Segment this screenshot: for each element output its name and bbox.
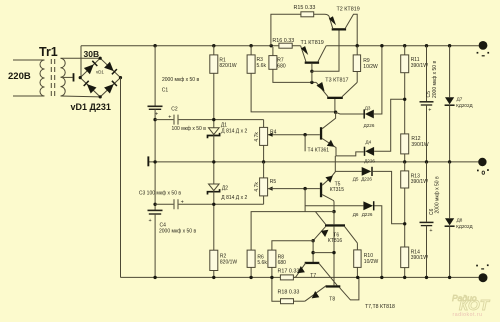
- svg-text:Д 814 Д x 2: Д 814 Д x 2: [221, 195, 247, 201]
- wire R4 top lead to reference node: [263, 120, 265, 128]
- svg-text:680: 680: [277, 63, 286, 69]
- svg-text:Д226: Д226: [364, 158, 375, 163]
- resistor R18: [281, 299, 294, 304]
- node top bus at R3: [249, 44, 252, 47]
- svg-text:820/1W: 820/1W: [219, 63, 237, 69]
- svg-text:+: +: [181, 199, 184, 205]
- transistor T7: [296, 262, 338, 286]
- svg-text:vD1: vD1: [96, 69, 104, 74]
- resistor R1: [210, 55, 218, 73]
- node middle at R4/R5: [262, 160, 265, 163]
- svg-text:100 мкф x 50 в: 100 мкф x 50 в: [172, 126, 207, 132]
- wire D7 anode lead: [449, 46, 451, 97]
- svg-text:Д7: Д7: [457, 97, 463, 102]
- node C3/R5 line at zener column: [212, 203, 215, 206]
- wire R6 bottom lead: [250, 267, 252, 277]
- svg-text:220В: 220В: [8, 71, 31, 82]
- wire bridge left corner up to positive bus: [80, 46, 82, 78]
- wire D3 cathode up to positive bus: [374, 46, 382, 114]
- svg-text:+: +: [429, 228, 432, 234]
- output terminal zero: [478, 158, 486, 166]
- svg-text:4.7k: 4.7k: [254, 182, 260, 192]
- node bottom bus at C6: [425, 276, 428, 279]
- wire C6 top lead: [426, 162, 428, 222]
- wire C6 bottom lead: [426, 226, 428, 278]
- node R11/R12 junction: [403, 98, 406, 101]
- wire secondary bottom lead to bridge: [61, 95, 101, 98]
- node T7 feed: [311, 251, 314, 254]
- resistor R16: [279, 43, 292, 48]
- potentiometer R5 wiper arrow: [268, 187, 273, 191]
- resistor R9: [353, 55, 360, 72]
- bridge diode bottom-left: [84, 81, 97, 94]
- potentiometer R4 wiper arrow: [268, 133, 273, 137]
- wire R14 bottom lead: [404, 268, 406, 278]
- label plus terminal marks: [477, 52, 490, 57]
- wire T6 base vertical: [333, 212, 335, 225]
- svg-text:radiokot.ru: radiokot.ru: [453, 312, 483, 318]
- wire T1 collector to T2 emitter column: [312, 31, 339, 72]
- svg-text:+: +: [149, 218, 152, 224]
- svg-text:vD1 Д231: vD1 Д231: [71, 102, 111, 112]
- wire R5 bottom lead to C3 line: [263, 196, 265, 204]
- transistor T5: [320, 171, 336, 211]
- node T3 base feed: [310, 81, 313, 84]
- node top bus at R1/D1 column: [212, 44, 215, 47]
- diode D5: [362, 167, 372, 176]
- wire R2 bottom lead: [213, 271, 215, 278]
- svg-text:+: +: [168, 114, 171, 120]
- node bottom bus at R8/R18 column: [270, 276, 273, 279]
- resistor R4: [260, 127, 268, 145]
- wire D6 cathode down to negative bus: [374, 206, 381, 278]
- svg-text:Д3: Д3: [365, 105, 371, 110]
- svg-text:390/1W: 390/1W: [411, 255, 429, 261]
- svg-text:C1: C1: [162, 87, 169, 93]
- wire bottom negative bus: [155, 276, 478, 278]
- wire T6 emitter to R8: [272, 241, 313, 250]
- node bottom bus at D8: [448, 276, 451, 279]
- wire C5 top lead: [426, 46, 428, 101]
- node T6/T7/T8 column: [332, 251, 335, 254]
- wire R18 to T8 emitter: [294, 300, 305, 302]
- wire R5 wiper to T5 base: [268, 188, 320, 190]
- node top bus at R7 / feedback loop: [270, 44, 273, 47]
- capacitor C1: [148, 105, 163, 107]
- wire D4 cathode to R11/R12 node: [374, 99, 405, 151]
- wire D7 cathode lead: [449, 105, 451, 162]
- wire C4 bottom lead: [154, 214, 156, 277]
- wire T5 base node down and right to D6 anode: [305, 189, 363, 212]
- transformer Tr1 secondary winding: [61, 58, 66, 96]
- svg-text:Д 814 Д x 2: Д 814 Д x 2: [221, 129, 247, 135]
- svg-text:C3 100 мкф x 50 в: C3 100 мкф x 50 в: [139, 191, 181, 197]
- node middle at R12/R13: [403, 160, 406, 163]
- wire D8 cathode lead: [449, 226, 451, 277]
- output terminal plus: [479, 41, 488, 50]
- svg-text:R4: R4: [270, 130, 277, 136]
- wire R1 bottom to D1: [213, 73, 215, 127]
- transformer core dashed lines: [51, 59, 54, 97]
- wire top positive bus: [81, 45, 479, 47]
- wire C5 bottom lead: [426, 105, 428, 162]
- svg-text:Д226: Д226: [361, 176, 372, 181]
- resistor R15: [301, 12, 314, 17]
- resistor R11: [401, 55, 409, 73]
- bridge diode bottom-right: [104, 81, 117, 94]
- transistor T2: [329, 14, 357, 46]
- transformer Tr1 primary winding: [40, 60, 45, 96]
- svg-text:R18 0.33: R18 0.33: [278, 289, 300, 295]
- output terminal minus: [479, 273, 488, 282]
- node bottom bus at R6: [249, 276, 252, 279]
- node middle at D7: [448, 160, 451, 163]
- middle line left terminal bar: [147, 156, 149, 166]
- wire R5 top lead: [263, 162, 265, 178]
- svg-text:30В: 30В: [84, 49, 100, 59]
- svg-text:Д6: Д6: [353, 212, 359, 217]
- wire R11 bottom lead: [404, 73, 406, 134]
- wire R17 to T7 emitter: [293, 276, 295, 278]
- wire R7 top lead: [272, 47, 274, 56]
- resistor R13: [401, 171, 409, 188]
- wire negative rail left vertical from bridge right corner: [121, 78, 156, 278]
- svg-text:Д4: Д4: [366, 139, 372, 144]
- svg-text:10/2W: 10/2W: [363, 64, 378, 70]
- capacitor C6: [420, 221, 434, 223]
- node bottom bus at R2: [212, 276, 215, 279]
- wire R9 top lead: [356, 46, 358, 55]
- svg-text:5.6k: 5.6k: [257, 63, 267, 69]
- wire R15 to T2 emitter: [314, 14, 329, 16]
- wire R13 top lead: [404, 162, 406, 171]
- zener diode D1: [208, 128, 220, 139]
- wire T5 emitter to D5 anode: [335, 156, 361, 172]
- wire D5 cathode to R13/R14 node: [373, 171, 405, 223]
- wire feedback loop left vertical: [271, 14, 301, 45]
- wire R8 bottom lead to R18: [272, 267, 281, 301]
- capacitor C3: [174, 199, 178, 209]
- wire D1 to middle: [213, 135, 215, 184]
- svg-text:Т1 КТ819: Т1 КТ819: [301, 40, 324, 46]
- wire T6 collector to R10: [356, 243, 358, 250]
- svg-text:Т7: Т7: [310, 273, 316, 279]
- diode D7: [445, 97, 455, 105]
- diode D8: [445, 218, 455, 226]
- node T4 base: [303, 133, 306, 136]
- wire secondary top lead to bridge: [61, 57, 101, 59]
- svg-text:2000 мкф x 50 в: 2000 мкф x 50 в: [159, 228, 196, 234]
- svg-text:КТ315: КТ315: [330, 187, 345, 193]
- wire D2 to R2: [213, 191, 215, 250]
- node top bus at T2/R9: [356, 44, 359, 47]
- node middle line at x=155: [153, 160, 156, 163]
- node top bus at D7: [448, 44, 451, 47]
- node R13/R14 junction: [403, 222, 406, 225]
- node T5 base: [303, 187, 306, 190]
- wire primary bottom lead: [13, 95, 44, 97]
- node top bus at C5: [425, 44, 428, 47]
- resistor R3: [247, 55, 255, 73]
- svg-text:R16 0.33: R16 0.33: [272, 38, 294, 44]
- wire R7 bottom to T3 base: [273, 69, 316, 82]
- wire D8 anode lead: [449, 162, 451, 218]
- wire C1 bottom to center node chain: [154, 109, 156, 210]
- wire T4 base stub down: [304, 135, 306, 152]
- resistor R17: [280, 275, 293, 280]
- svg-text:Д8: Д8: [457, 218, 463, 223]
- wire T1 collector to T3 base node: [311, 71, 313, 82]
- resistor R12: [401, 134, 409, 154]
- node T6 emitter: [311, 239, 314, 242]
- resistor R7: [269, 56, 277, 70]
- node bottom bus at C4: [153, 276, 156, 279]
- svg-text:Т4 КТ361: Т4 КТ361: [308, 147, 330, 153]
- transistor T8: [305, 277, 359, 301]
- bridge corner junction dots: [99, 57, 102, 60]
- svg-text:Радио: Радио: [452, 293, 477, 303]
- svg-text:10/2W: 10/2W: [364, 259, 379, 265]
- transistor T6: [313, 212, 357, 286]
- capacitor C4: [148, 209, 163, 211]
- svg-text:4.7k: 4.7k: [254, 132, 260, 142]
- wire secondary center tap: [63, 76, 73, 78]
- resistor R2: [210, 250, 218, 270]
- node T3/T4/R3/D3: [334, 111, 337, 114]
- wire C1 top lead: [154, 46, 156, 106]
- capacitor C5: [420, 101, 434, 103]
- svg-text:R15 0.33: R15 0.33: [294, 5, 316, 11]
- resistor R5: [260, 178, 268, 196]
- svg-text:Т3 КТ817: Т3 КТ817: [325, 77, 348, 83]
- capacitor C2: [174, 115, 178, 125]
- bridge diode top-right: [104, 62, 117, 75]
- zener diode D2: [208, 184, 220, 195]
- wire R9 bottom to T3 collector diagonal: [356, 72, 358, 83]
- resistor R10: [354, 250, 361, 268]
- wire D3 anode lead: [336, 112, 364, 114]
- node top bus at C1: [153, 44, 156, 47]
- node bottom bus at D6: [380, 276, 383, 279]
- diode D4: [365, 147, 375, 156]
- svg-text:КД202Д: КД202Д: [456, 103, 473, 108]
- svg-text:Т7,Т8 КТ818: Т7,Т8 КТ818: [365, 304, 395, 310]
- svg-text:Д5: Д5: [353, 176, 359, 181]
- svg-text:2000 мкф x 50 в: 2000 мкф x 50 в: [432, 61, 438, 98]
- node middle at zener column: [212, 160, 215, 163]
- svg-text:820/1W: 820/1W: [220, 259, 238, 265]
- label zero terminal marks: [477, 169, 489, 171]
- wire R12 bottom lead: [404, 154, 406, 162]
- wire R3 top lead: [250, 46, 252, 55]
- bridge rectifier VD1 diamond: [80, 58, 120, 97]
- wire C2 node line: [155, 119, 264, 121]
- wire R10 bottom lead: [356, 267, 358, 277]
- node middle at C5: [425, 160, 428, 163]
- wire C3 node line: [155, 203, 264, 205]
- svg-text:5.6k: 5.6k: [257, 260, 267, 266]
- node T5 collector / R6 line: [332, 210, 335, 213]
- wire primary top lead: [13, 59, 44, 61]
- svg-text:390/1W: 390/1W: [411, 179, 429, 185]
- node bottom bus at R10: [356, 276, 359, 279]
- center tap terminal bar: [73, 73, 75, 81]
- transistor T3: [316, 82, 357, 112]
- wire R1 top lead: [213, 46, 215, 55]
- svg-text:+: +: [428, 107, 431, 113]
- diode D6: [363, 201, 373, 210]
- node top bus at D3: [380, 44, 383, 47]
- bridge diode top-left: [84, 61, 97, 74]
- svg-text:Д2: Д2: [222, 185, 228, 191]
- node bottom bus at R14: [403, 276, 406, 279]
- svg-text:Т2 КТ819: Т2 КТ819: [337, 6, 360, 12]
- svg-text:КД202Д: КД202Д: [456, 224, 473, 229]
- wire T6 emitter node down: [312, 241, 314, 262]
- wire T4 base line: [268, 134, 320, 136]
- label minus terminal marks: [476, 264, 488, 269]
- svg-text:Д226: Д226: [362, 212, 373, 217]
- resistor R6: [247, 250, 255, 267]
- svg-text:Д226: Д226: [364, 123, 375, 128]
- node C3 branch: [153, 203, 156, 206]
- wire R4 bottom lead to middle: [263, 145, 265, 162]
- wire R3 bottom to T3/T4 node: [251, 73, 336, 112]
- svg-text:Т8: Т8: [329, 296, 335, 302]
- svg-text:2000 мкф x 50 в: 2000 мкф x 50 в: [162, 77, 199, 83]
- svg-text:C2: C2: [171, 107, 178, 113]
- svg-text:КТ816: КТ816: [328, 238, 343, 244]
- node D1 top / C2 line: [212, 118, 215, 121]
- wire middle zero-volt line: [148, 161, 478, 163]
- resistor R14: [401, 247, 409, 268]
- wire R11 top lead: [404, 46, 406, 55]
- node top bus at R11: [403, 44, 406, 47]
- transistor T4: [320, 112, 364, 156]
- svg-text:Tr1: Tr1: [39, 45, 58, 59]
- transistor T1: [301, 46, 327, 72]
- svg-text:R17 0.33: R17 0.33: [278, 269, 300, 275]
- node T1 collector: [310, 70, 313, 73]
- svg-text:390/1W: 390/1W: [411, 63, 429, 69]
- wire R6 top line: [251, 212, 334, 251]
- node C2 branch: [153, 118, 156, 121]
- diode D3: [364, 109, 374, 118]
- svg-text:680: 680: [278, 260, 287, 266]
- wire T7 feed to T6/T8 column: [313, 252, 334, 254]
- wire R13 bottom lead: [404, 188, 406, 247]
- svg-text:2000 мкф x 50 в: 2000 мкф x 50 в: [435, 176, 441, 213]
- svg-text:R5: R5: [270, 179, 277, 185]
- resistor R8: [268, 250, 276, 267]
